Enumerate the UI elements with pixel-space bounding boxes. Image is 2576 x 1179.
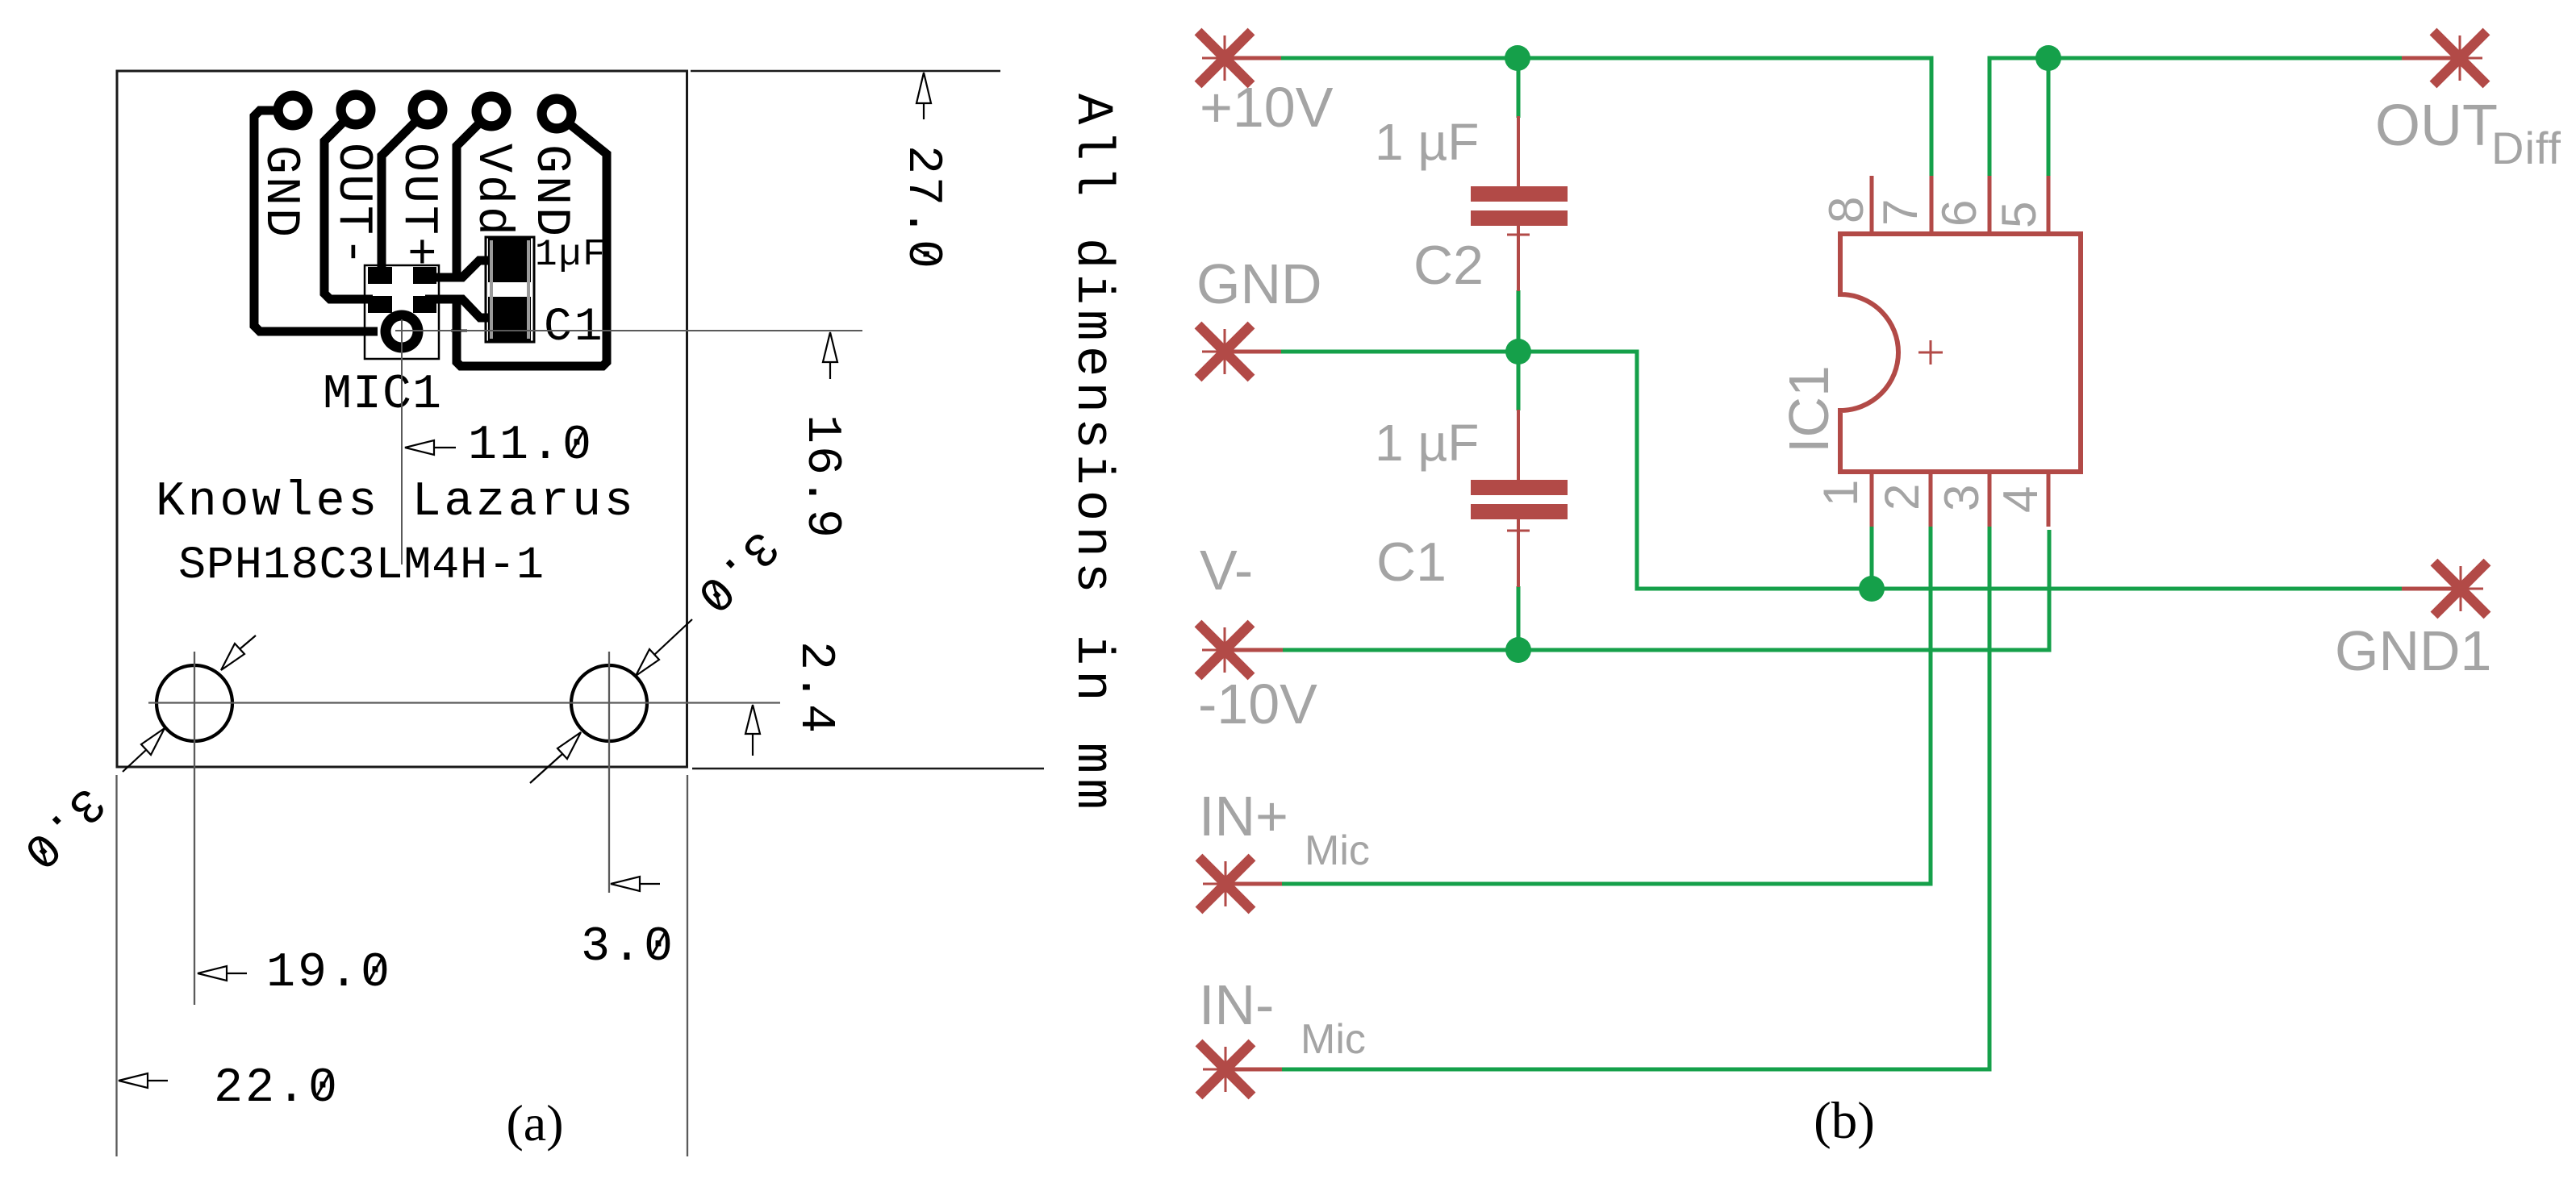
label 3.0 right hole (683, 518, 788, 623)
pad GND (1) (273, 91, 313, 131)
wire net V- (1283, 530, 2049, 650)
svg-text:Vdd: Vdd (465, 144, 520, 238)
pad MIC1 bottom-left (368, 296, 392, 313)
pad OUT- (2) (336, 90, 376, 130)
svg-text:8: 8 (1819, 197, 1873, 223)
label 11.0 (468, 419, 594, 473)
pad MIC1 top-right (413, 267, 436, 284)
pad Vdd (4) (472, 92, 511, 131)
pin 1 (1870, 469, 1874, 527)
wire C1 top stem green (1517, 352, 1521, 410)
pin connector X V- (1198, 623, 1283, 677)
arrow 2.4 up (745, 705, 760, 756)
svg-text:5: 5 (1992, 202, 2046, 228)
wire Vdd/C1 trace MIC1 top-right pad to C1 top pad (425, 260, 495, 277)
PCB board outline (117, 71, 687, 767)
wire GND trace pad1 to shield ring (254, 110, 378, 331)
svg-text:Mic: Mic (1305, 827, 1370, 874)
svg-text:All dimensions in mm: All dimensions in mm (1063, 94, 1121, 814)
label 3.0 left hole (9, 774, 115, 880)
arrow 16.9 up (823, 332, 837, 379)
svg-text:GND: GND (1196, 252, 1322, 315)
IC1 origin cross (1918, 340, 1943, 365)
pin connector X GND1 (2402, 562, 2487, 615)
wire OUT- trace pad2 to MIC1 pad (324, 110, 373, 299)
svg-text:IN+: IN+ (1199, 785, 1288, 848)
pin 8 (1870, 176, 1874, 236)
svg-text:2.4: 2.4 (787, 641, 842, 735)
capacitor C2 plates (1471, 186, 1568, 202)
wire net IN- to pin3 (1282, 527, 1989, 1069)
svg-text:3: 3 (1935, 485, 1989, 511)
origin cross C1 (PCB) (451, 323, 467, 339)
svg-text:GND1: GND1 (2335, 619, 2491, 682)
leader arrow left hole NE (221, 635, 256, 670)
pin 7 (1930, 176, 1934, 236)
mounting hole right (571, 665, 647, 741)
svg-text:7: 7 (1873, 199, 1927, 226)
junction dot OUT pins 5/6 (2035, 45, 2061, 71)
pad C1 bottom (PCB) (488, 297, 531, 341)
pin 4 (2047, 469, 2051, 527)
dimension line vertical through right hole (608, 652, 610, 893)
extension line bottom edge right (692, 768, 1044, 770)
mounting hole left (157, 665, 232, 741)
junction dot GND1/pin1 (1859, 576, 1885, 602)
svg-text:OUT+: OUT+ (390, 143, 445, 269)
dimension line horizontal through hole centers (148, 702, 780, 703)
junction dot +10V/C2 (1505, 45, 1530, 71)
svg-text:1 µF: 1 µF (1375, 414, 1479, 472)
pin 6 (1988, 176, 1992, 236)
svg-text:-10V: -10V (1198, 673, 1317, 735)
svg-text:IN-: IN- (1199, 973, 1274, 1036)
pin connector X +10V (1198, 31, 1281, 85)
svg-text:OUT-: OUT- (325, 143, 380, 269)
junction dot GND/C2/C1 (1505, 339, 1531, 365)
component MIC1 package outline (365, 265, 439, 359)
svg-text:Diff: Diff (2491, 123, 2561, 173)
svg-text:(a): (a) (506, 1094, 563, 1152)
component C1 outline (PCB) (486, 237, 534, 342)
op-amp IC1 body (1840, 234, 2081, 472)
svg-text:C1: C1 (544, 302, 605, 354)
svg-text:GND: GND (523, 144, 578, 239)
wire pin1 green (1870, 527, 1874, 589)
wire GND trace MIC1 bottom-right pad to C1 bottom pad (425, 299, 495, 318)
wire OUT+ trace pad3 to MIC1 pad (382, 110, 428, 276)
pin connector X IN+ (1199, 857, 1282, 910)
pin 3 (1988, 469, 1992, 527)
pin connector X IN- (1199, 1043, 1282, 1096)
arrow 22.0 left (119, 1073, 168, 1088)
svg-text:C1: C1 (1376, 531, 1447, 593)
svg-text:3.0: 3.0 (581, 920, 675, 975)
pad MIC1 bottom-right (413, 296, 436, 313)
capacitor C2 origin cross (1507, 234, 1530, 236)
svg-text:2: 2 (1875, 484, 1929, 510)
dimension line vertical through left hole (194, 652, 195, 1005)
svg-text:V-: V- (1200, 539, 1253, 602)
pad OUT+ (3) (408, 90, 448, 130)
svg-text:1 µF: 1 µF (1375, 113, 1479, 171)
dimension line horizontal at C1 level (16.9 ref) (395, 330, 862, 331)
dimension line vertical MIC1 center (11.0 ref) (401, 319, 403, 565)
pin 5 (2047, 176, 2051, 236)
svg-text:1µF: 1µF (535, 234, 607, 276)
wire net IN+ to pin2 (1282, 527, 1931, 884)
arrow 27.0 up (916, 73, 931, 119)
label 3.0 dim (581, 920, 675, 975)
label 27.0 (895, 145, 950, 271)
wire GND loop MIC1 to pad5 around C1 (457, 114, 607, 366)
capacitor C1 stems red (1517, 410, 1520, 587)
wire net OUT (1989, 58, 2402, 176)
svg-text:Knowles Lazarus: Knowles Lazarus (156, 475, 637, 530)
component C1 body gray lines (490, 240, 493, 339)
extension line top edge right (691, 70, 1000, 73)
pad MIC1 shield ring (381, 310, 424, 353)
svg-text:(b): (b) (1814, 1092, 1875, 1150)
svg-text:SPH18C3LM4H-1: SPH18C3LM4H-1 (178, 540, 545, 592)
label 19.0 (266, 946, 392, 1001)
wire net GND (1281, 352, 2402, 589)
svg-text:MIC1: MIC1 (323, 368, 442, 423)
leader arrow right hole SW (530, 732, 581, 783)
extension line right edge below (687, 775, 688, 1156)
capacitor C1 plates (1471, 480, 1568, 495)
wire net +10V (1281, 58, 1931, 176)
pad GND (5) (537, 94, 577, 134)
svg-text:6: 6 (1932, 200, 1986, 227)
svg-text:OUT: OUT (2375, 94, 2498, 158)
wire C2 bottom stem green (1517, 290, 1521, 352)
arrow 3.0 right-hole-to-edge left (611, 877, 660, 891)
pin 2 (1929, 469, 1933, 527)
arrow 19.0 left (198, 966, 247, 981)
pin connector X GND (1198, 325, 1281, 378)
pad C1 top (PCB) (488, 236, 531, 282)
leader arrow right hole NE (636, 619, 692, 676)
capacitor C1 origin cross (1507, 530, 1530, 532)
svg-text:16.9: 16.9 (794, 415, 849, 540)
wire C2 top stem green (1517, 58, 1521, 118)
leader arrow left hole SW (123, 728, 165, 772)
pin connector X OUT_Diff (2402, 31, 2486, 85)
extension line left edge below (115, 775, 117, 1156)
svg-text:1: 1 (1814, 480, 1868, 506)
junction dot V-/C1 (1505, 637, 1531, 663)
svg-text:IC1: IC1 (1777, 365, 1840, 453)
label 22.0 (214, 1061, 340, 1116)
wire Vdd trace pad4 down (457, 111, 491, 279)
wire C1 bottom stem green (1517, 586, 1521, 650)
capacitor C2 stems red (1517, 116, 1520, 291)
arrow 11.0 left (405, 440, 456, 455)
svg-text:C2: C2 (1413, 235, 1484, 296)
svg-text:4: 4 (1994, 486, 2048, 513)
pad MIC1 top-left (368, 267, 392, 284)
svg-text:Mic: Mic (1301, 1016, 1366, 1063)
svg-text:+10V: +10V (1200, 76, 1334, 139)
svg-text:GND: GND (253, 145, 307, 240)
